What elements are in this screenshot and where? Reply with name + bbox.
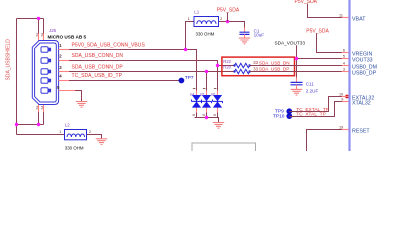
wire pin3 DP row: [59, 71, 235, 73]
pin 9 XTAL32: [341, 97, 370, 106]
wire shield tab B bottom: [43, 105, 45, 125]
svg-text:RESET: RESET: [352, 129, 370, 135]
svg-text:TP10: TP10: [273, 114, 285, 120]
capacitor C11: [291, 82, 303, 84]
pin 3 stub: [59, 71, 69, 73]
svg-text:TC_SDA_USB_ID_TP: TC_SDA_USB_ID_TP: [72, 73, 123, 79]
svg-text:SDA_USB_DP: SDA_USB_DP: [259, 67, 289, 72]
junction VOUT33: [295, 57, 298, 60]
svg-text:R20: R20: [223, 65, 231, 70]
svg-text:SDA_VOUT33: SDA_VOUT33: [275, 40, 306, 45]
svg-text:6: 6: [343, 48, 345, 52]
wire EXTAL32: [289, 97, 348, 112]
wire shield bottom rail: [17, 124, 44, 126]
svg-text:U4: U4: [190, 93, 195, 97]
wire L1 output: [219, 22, 245, 28]
svg-text:10uF: 10uF: [254, 33, 265, 38]
svg-text:2.2UF: 2.2UF: [306, 88, 319, 93]
svg-text:P5V_SDA: P5V_SDA: [217, 7, 240, 13]
svg-text:R22: R22: [223, 59, 231, 64]
resistor R20: [223, 65, 258, 74]
wire L2 to ground: [87, 135, 102, 139]
ground C11: [291, 89, 302, 95]
svg-text:33: 33: [253, 66, 258, 71]
wire P5V_SDA stub: [227, 13, 229, 22]
junction shield rail tab: [37, 123, 40, 126]
svg-text:C11: C11: [306, 82, 315, 87]
svg-text:VBAT: VBAT: [352, 17, 366, 23]
wire C11 riser: [296, 59, 298, 78]
component box bottom: [192, 143, 256, 153]
svg-text:5: 5: [57, 85, 60, 90]
TVS diode U4: [190, 89, 202, 118]
junction pin10: [345, 95, 349, 99]
svg-text:330 OHM: 330 OHM: [196, 31, 215, 36]
wire shield to L2: [17, 134, 65, 136]
ground L2: [96, 139, 107, 145]
pin 10 EXTAL32: [339, 92, 374, 101]
junction DP diode: [205, 70, 208, 73]
svg-text:SDA_USB_CONN_DP: SDA_USB_CONN_DP: [72, 64, 124, 70]
svg-text:P5V0_SDA_USB_CONN_VBUS: P5V0_SDA_USB_CONN_VBUS: [72, 42, 146, 48]
wire shield left vertical: [16, 19, 18, 135]
wire diode rail: [195, 118, 219, 123]
svg-text:330 OHM: 330 OHM: [65, 145, 84, 150]
svg-text:19: 19: [339, 125, 343, 129]
wire VBAT: [308, 4, 349, 18]
svg-text:SDA_USB_CONN_DN: SDA_USB_CONN_DN: [72, 53, 124, 59]
svg-text:2: 2: [220, 17, 222, 21]
junction L1 tap: [184, 48, 187, 51]
capacitor C1: [244, 28, 246, 32]
pin 5 stub: [59, 90, 75, 92]
svg-text:1: 1: [59, 130, 61, 134]
inductor L1: [194, 17, 219, 27]
svg-text:2: 2: [89, 130, 91, 134]
wire L1 input: [186, 22, 195, 50]
test point TP10: [286, 113, 292, 119]
wire shield tab A top: [38, 19, 40, 41]
connector J26: [32, 41, 58, 105]
junction shield rail left: [15, 123, 18, 126]
junction diode rail: [205, 116, 208, 119]
svg-text:3: 3: [59, 65, 62, 70]
pin 3 USB0_DP: [342, 67, 377, 76]
test point TP7: [179, 78, 185, 84]
ground C1: [239, 38, 250, 44]
svg-text:5: 5: [343, 54, 345, 58]
junction shield top: [37, 17, 40, 20]
test point TP9: [286, 108, 292, 114]
svg-text:S4: S4: [40, 105, 44, 109]
wire RESET: [307, 130, 349, 152]
wire pin5 to ground: [59, 91, 82, 102]
wire pin1 VBUS row: [59, 50, 197, 96]
pin 1 stub: [59, 49, 69, 51]
svg-text:4: 4: [59, 74, 62, 79]
wire VREGIN: [317, 34, 349, 53]
inductor L2: [65, 130, 87, 140]
resistor box: [222, 57, 295, 76]
svg-text:L2: L2: [65, 122, 70, 127]
svg-text:10: 10: [339, 92, 343, 96]
pin 19 RESET: [339, 125, 370, 134]
svg-text:U6: U6: [211, 93, 216, 97]
svg-text:SDA_USBSHIELD: SDA_USBSHIELD: [6, 39, 12, 81]
svg-text:TP7: TP7: [185, 75, 194, 81]
svg-text:S3: S3: [35, 105, 39, 109]
svg-text:P5V_SDA: P5V_SDA: [306, 28, 329, 34]
pin shield tab segments bottom: [39, 105, 44, 113]
TVS diode U5: [200, 72, 212, 118]
junction DN diode: [216, 64, 219, 67]
svg-text:4: 4: [343, 61, 345, 65]
wire pin4 ID row: [59, 80, 179, 82]
junction P5V_SDA tap: [226, 20, 229, 23]
svg-text:9: 9: [341, 97, 343, 101]
ground pin5: [76, 102, 87, 108]
svg-text:U5: U5: [200, 93, 205, 97]
svg-text:1: 1: [59, 43, 62, 48]
svg-text:SDA_USB_DN: SDA_USB_DN: [259, 60, 290, 65]
svg-text:USB0_DP: USB0_DP: [352, 71, 377, 77]
pin 2 stub: [59, 60, 69, 62]
wire shield tab A bottom: [38, 105, 40, 125]
svg-text:MICRO USB AB 5: MICRO USB AB 5: [48, 34, 87, 39]
svg-text:1: 1: [188, 17, 190, 21]
pin 5 VOUT33: [342, 54, 373, 63]
svg-text:VOUT33: VOUT33: [352, 58, 373, 64]
ground diodes: [213, 123, 224, 129]
wire shield top horizontal: [17, 18, 44, 20]
wire shield tab B top: [43, 19, 45, 41]
svg-text:11: 11: [339, 13, 343, 17]
pin 4 USB0_DM: [342, 61, 377, 70]
svg-text:XTAL32: XTAL32: [352, 101, 371, 107]
wire XTAL32: [289, 102, 348, 117]
pin 11 VBAT: [339, 13, 366, 22]
svg-text:S1: S1: [35, 32, 39, 36]
svg-text:J26: J26: [49, 28, 57, 33]
wire VOUT33: [297, 45, 349, 58]
wire DN to pin4: [250, 65, 349, 67]
wire DP to pin3: [250, 71, 349, 73]
svg-text:P5V_SDA: P5V_SDA: [295, 0, 318, 5]
TVS diode U6: [211, 66, 223, 118]
svg-text:S2: S2: [40, 32, 44, 36]
svg-text:L1: L1: [194, 10, 199, 15]
svg-text:33: 33: [253, 60, 258, 65]
pin 4 stub: [59, 80, 69, 82]
svg-text:3: 3: [343, 67, 345, 71]
IC U1 body edge: [348, 0, 350, 151]
pin shield tab segments top: [39, 34, 44, 41]
svg-text:TC_XTAL_TP: TC_XTAL_TP: [296, 112, 326, 118]
pin 6 VREGIN: [342, 48, 373, 57]
wire pin2 DN row: [59, 61, 235, 66]
svg-text:2: 2: [59, 54, 62, 59]
resistor R22: [223, 59, 258, 67]
